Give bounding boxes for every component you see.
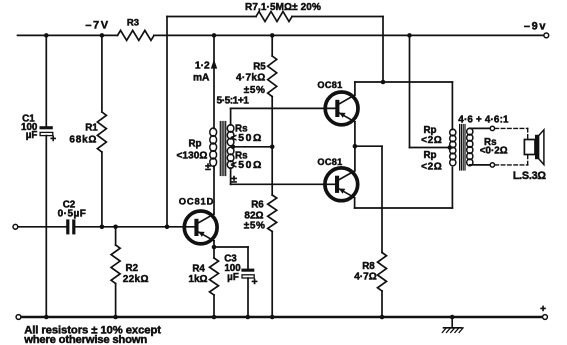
- label C3: [224, 254, 241, 284]
- node emitter-collector junction: [353, 144, 358, 149]
- note line 2: [23, 334, 147, 345]
- svg-text:4·7kΩ: 4·7kΩ: [236, 72, 266, 83]
- node R5 top junction: [270, 33, 275, 38]
- svg-text:<2Ω: <2Ω: [421, 135, 442, 146]
- svg-text:<0·2Ω: <0·2Ω: [480, 145, 508, 156]
- label 1.2mA: [193, 60, 210, 83]
- wire T1 primary feed: [213, 35, 215, 128]
- wire T2 secondary bottom lead: [470, 164, 490, 166]
- terminal speaker top: [490, 126, 494, 130]
- capacitor C3 (electrolytic): [241, 269, 254, 317]
- label LS: [513, 170, 547, 182]
- label OC81 lower: [317, 157, 342, 167]
- wire emitter to C3: [214, 247, 248, 268]
- svg-text:<50Ω: <50Ω: [231, 160, 263, 171]
- label R5: [236, 61, 266, 96]
- label -7V: [85, 20, 109, 32]
- capacitor C2: [66, 219, 195, 234]
- label T2 Rp upper: [421, 125, 442, 146]
- svg-text:OC81: OC81: [317, 80, 342, 90]
- node T2 center tap: [448, 145, 453, 150]
- transformer T2 core: [460, 125, 465, 171]
- label OC81 upper: [317, 80, 342, 90]
- label T1 Rp: [176, 138, 211, 173]
- label T2 Rp lower: [421, 150, 442, 173]
- terminal -9V: [544, 33, 549, 38]
- svg-text:±5%: ±5%: [244, 221, 266, 232]
- wire OC81D emitter: [213, 241, 215, 247]
- svg-text:<130Ω: <130Ω: [176, 150, 207, 161]
- wire feedback top right: [292, 16, 383, 18]
- svg-text:±5%: ±5%: [244, 85, 266, 96]
- resistor R7: [256, 12, 292, 22]
- wire Q2 emitter to Q3 collector: [354, 122, 356, 171]
- svg-text:µF: µF: [227, 272, 239, 283]
- label T1 secondary polarity: [231, 174, 237, 186]
- label R2: [123, 263, 149, 285]
- svg-text:R3: R3: [127, 18, 139, 29]
- node R4 bottom junction: [212, 315, 217, 320]
- label R8: [354, 261, 376, 283]
- wire input line to C2: [18, 226, 66, 228]
- svg-text:+: +: [252, 276, 258, 288]
- svg-text:±: ±: [205, 161, 211, 173]
- node T1 center tap: [231, 145, 236, 150]
- svg-text:<2Ω: <2Ω: [421, 162, 442, 173]
- node feedback-to-base junction: [165, 225, 170, 230]
- label C1 polarity +: [50, 134, 56, 145]
- terminal + (bottom right): [543, 315, 548, 320]
- svg-text:µF: µF: [26, 130, 38, 141]
- wire T1 primary to collector: [213, 166, 215, 168]
- svg-text:mA: mA: [193, 72, 210, 83]
- note line 1: [24, 325, 161, 337]
- wire feedback top left: [167, 16, 256, 18]
- svg-text:OC81: OC81: [317, 157, 342, 167]
- wire Q2 collector line: [355, 82, 453, 95]
- node -9V feed junction: [407, 33, 412, 38]
- resistor R6: [268, 147, 277, 317]
- wire T1 secondary bottom to Q3 base: [231, 168, 335, 184]
- transistor Q1 OC81D: [184, 211, 217, 244]
- node R2 bottom junction: [113, 315, 118, 320]
- node T1 primary feed junction: [212, 33, 217, 38]
- node OC81D emitter junction: [212, 245, 217, 250]
- transistor Q3 OC81 (lower): [325, 168, 358, 201]
- transformer T1 secondary upper winding: [227, 125, 234, 146]
- node R6 bottom junction: [270, 315, 275, 320]
- wire feedback left vertical: [166, 17, 168, 227]
- wire top rail left (-7V section): [18, 34, 118, 36]
- svg-text:68kΩ: 68kΩ: [69, 134, 97, 145]
- svg-text:5·5:1+1: 5·5:1+1: [217, 96, 250, 107]
- svg-text:<50Ω: <50Ω: [231, 133, 263, 144]
- transformer T1 core: [220, 122, 225, 176]
- svg-text:–9v: –9v: [524, 21, 547, 33]
- label T1 Rs upper: [231, 123, 263, 144]
- svg-text:R5: R5: [253, 61, 266, 72]
- wire T1 secondary top to Q2 base: [231, 108, 336, 125]
- svg-text:Rp: Rp: [423, 150, 436, 161]
- svg-text:0·5µF: 0·5µF: [58, 209, 87, 220]
- svg-text:R6: R6: [251, 199, 264, 210]
- wire OC81D collector: [213, 168, 215, 214]
- wire dashed to speaker: [495, 128, 528, 165]
- svg-text:R7,1·5MΩ± 20%: R7,1·5MΩ± 20%: [245, 2, 321, 13]
- wire T2 secondary top lead: [470, 127, 490, 129]
- wire T2 primary top lead: [451, 82, 453, 130]
- resistor R4: [210, 247, 219, 317]
- svg-text:–7V: –7V: [85, 20, 109, 32]
- wire bottom rail: [21, 316, 543, 318]
- resistor R1: [97, 35, 106, 226]
- loudspeaker LS: [524, 130, 544, 165]
- label R4: [188, 263, 207, 285]
- transformer T1 secondary lower winding: [227, 147, 234, 168]
- svg-text:OC81D: OC81D: [179, 196, 215, 207]
- svg-text:+: +: [50, 134, 56, 145]
- node R8 bottom junction: [380, 315, 385, 320]
- svg-text:Rp: Rp: [188, 138, 201, 149]
- wire T1 center tap: [233, 146, 273, 148]
- resistor R5: [268, 35, 277, 146]
- svg-text:4·6 + 4·6:1: 4·6 + 4·6:1: [458, 114, 509, 125]
- node R1 bottom junction: [100, 225, 105, 230]
- label T2 Rs: [480, 137, 508, 157]
- svg-text:R1: R1: [85, 123, 98, 134]
- ground (chassis symbol): [442, 315, 463, 333]
- wire Q3 emitter line: [355, 168, 453, 209]
- label C2: [58, 199, 87, 219]
- node R2 top junction: [113, 225, 118, 230]
- label R3: [127, 18, 139, 29]
- label R6: [244, 199, 266, 231]
- transformer T2 secondary winding: [467, 128, 473, 166]
- label C1: [21, 113, 38, 141]
- node bias divider junction: [270, 145, 275, 150]
- label -9V: [524, 21, 547, 33]
- svg-text:4·7Ω: 4·7Ω: [354, 272, 376, 283]
- label C3 polarity +: [252, 276, 258, 288]
- node C3 bottom junction: [246, 315, 251, 320]
- label R1: [69, 123, 98, 146]
- node C1 top junction: [44, 33, 49, 38]
- terminal input (top left): [13, 224, 18, 229]
- terminal input ground (bottom left): [16, 315, 21, 320]
- node C1 bottom junction: [44, 315, 49, 320]
- transformer T2 primary winding: [450, 129, 456, 166]
- transistor Q2 OC81 (upper): [325, 92, 358, 125]
- label T1 Rs lower: [231, 150, 263, 171]
- svg-text:R8: R8: [362, 261, 375, 272]
- svg-text:where otherwise shown: where otherwise shown: [23, 334, 147, 345]
- svg-text:22kΩ: 22kΩ: [123, 274, 149, 285]
- wire top rail -9V section: [154, 34, 544, 36]
- resistor R8: [378, 253, 387, 318]
- resistor R3: [118, 30, 155, 40]
- label OC81D: [179, 196, 215, 207]
- svg-text:R2: R2: [126, 263, 139, 274]
- label T1 ratio: [217, 96, 250, 107]
- terminal speaker bottom: [490, 163, 494, 167]
- capacitor C1 (electrolytic): [40, 35, 53, 317]
- svg-text:+: +: [540, 304, 546, 315]
- node R7 to collector line: [381, 80, 386, 85]
- current arrow 1.2mA: [211, 59, 217, 68]
- label +: [540, 304, 546, 315]
- wire junction to R8: [355, 146, 382, 252]
- svg-text:R4: R4: [192, 263, 205, 274]
- svg-text:1kΩ: 1kΩ: [188, 274, 207, 285]
- node R1 top junction: [100, 33, 105, 38]
- svg-text:1·2: 1·2: [195, 60, 210, 71]
- wire feedback right vertical: [382, 17, 384, 83]
- label R7 value: [245, 2, 321, 13]
- svg-text:L.S.3Ω: L.S.3Ω: [513, 170, 547, 182]
- transformer T1 primary winding: [210, 128, 217, 166]
- wire -9V to T2 center tap: [410, 35, 450, 147]
- resistor R2: [111, 227, 120, 317]
- label T2 ratio: [458, 114, 509, 125]
